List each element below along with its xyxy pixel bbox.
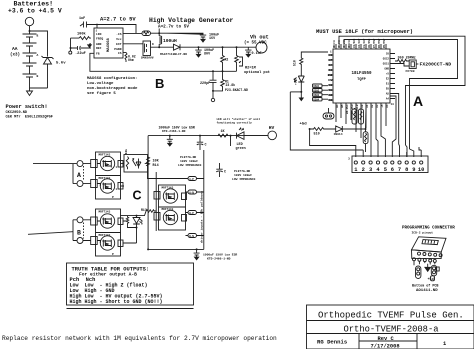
label 1000uF: [159, 126, 195, 134]
svg-text:RD2/A: RD2/A: [337, 40, 341, 48]
bracket A: [73, 164, 77, 184]
svg-text:1uF: 1uF: [79, 17, 85, 21]
wire -CS: [123, 32, 142, 34]
wire HV rail: [180, 46, 256, 48]
svg-text:C6: C6: [329, 54, 333, 57]
svg-text:B: B: [77, 230, 81, 237]
resistor R2: [221, 47, 229, 71]
label Batteries: [8, 1, 62, 15]
svg-text:7/17/2008: 7/17/2008: [371, 344, 400, 349]
svg-text:C0: C0: [386, 53, 390, 56]
svg-text:FX?00: FX?00: [406, 70, 415, 73]
svg-text:A: A: [413, 93, 423, 109]
svg-text:10: 10: [418, 167, 424, 173]
resistor pack dual: [352, 108, 364, 124]
svg-text:1000uF 150V Low ESR: 1000uF 150V Low ESR: [203, 254, 237, 257]
svg-text:MRF7343: MRF7343: [99, 153, 111, 156]
svg-text:Low-voltage: Low-voltage: [87, 81, 114, 86]
svg-text:Replace resistor network with: Replace resistor network with 1M equival…: [2, 335, 277, 342]
svg-text:A=2.7v to 5V: A=2.7v to 5V: [158, 25, 189, 30]
svg-text:R2=1M: R2=1M: [245, 67, 256, 71]
pin leads: [414, 261, 435, 266]
node: [158, 46, 160, 48]
label C: [133, 189, 142, 203]
middle driver pair: [154, 185, 187, 230]
terminal B1: [77, 217, 83, 223]
ground GND pin: [88, 44, 92, 48]
svg-text:EXT: EXT: [116, 43, 122, 46]
svg-text:B-N: B-N: [189, 235, 194, 238]
svg-text:10K: 10K: [153, 160, 160, 164]
svg-text:C0/OSC: C0/OSC: [367, 38, 371, 48]
svg-text:B2: B2: [329, 94, 333, 97]
svg-text:see figure 5: see figure 5: [87, 91, 116, 96]
svg-text:6: 6: [391, 167, 394, 173]
svg-text:GND: GND: [96, 43, 102, 46]
led B: [133, 216, 142, 231]
svg-text:A: A: [37, 54, 39, 57]
node: [136, 227, 138, 229]
svg-text:High High - Short to GND (NO!!: High High - Short to GND (NO!!): [70, 299, 163, 305]
node: [147, 248, 149, 250]
label +5d vertical: [293, 79, 297, 85]
svg-text:1: 1: [354, 167, 357, 173]
label stutter: [217, 117, 261, 124]
terminal A1: [77, 161, 83, 167]
label MUST USE 18LF: [316, 29, 413, 35]
svg-text:R13: R13: [141, 208, 147, 212]
terminal Vh out: [244, 35, 269, 54]
svg-text:D: D: [152, 43, 154, 46]
svg-text:16V: 16V: [209, 37, 216, 41]
svg-text:Bottom of PCB: Bottom of PCB: [412, 284, 438, 289]
svg-text:(= 55 VDC: (= 55 VDC: [244, 41, 267, 46]
terminal: [69, 51, 72, 54]
svg-text:W: W: [331, 79, 333, 82]
label MAX668 config: [87, 76, 138, 96]
diode 1N914: [325, 126, 343, 136]
svg-text:C1/CCP: C1/CCP: [362, 38, 366, 48]
svg-text:Ohm: Ohm: [128, 58, 134, 62]
inductor L1 100uH: [159, 33, 177, 47]
wire crystal drop: [392, 119, 396, 157]
svg-text:PROGRAMMING CONNECTOR: PROGRAMMING CONNECTOR: [402, 227, 455, 231]
label B: [77, 230, 81, 237]
label FX200CCT-ND: [420, 62, 452, 68]
svg-text:A1: A1: [366, 104, 369, 108]
driver bus vertical: [203, 150, 205, 249]
svg-text:PGND: PGND: [114, 48, 121, 51]
capacitor C bypass 1uF: [80, 22, 89, 28]
svg-text:C7: C7: [329, 59, 333, 62]
wires into pins 1,2: [310, 129, 356, 157]
svg-text:100uH: 100uH: [163, 38, 177, 44]
svg-text:3: 3: [369, 167, 372, 173]
svg-text:+5d: +5d: [300, 122, 308, 127]
node: [158, 32, 160, 34]
wire divider: [213, 70, 237, 72]
svg-text:DSW3: DSW3: [314, 94, 320, 97]
svg-text:80V: 80V: [204, 53, 211, 57]
svg-text:3: 3: [348, 158, 350, 161]
mcu U1 18LF4550: [328, 38, 395, 114]
node battery top: [29, 30, 31, 32]
label 5.6v: [56, 62, 66, 66]
svg-text:Batteries!: Batteries!: [14, 1, 54, 8]
svg-text:Ortho-TVEMF-2008-a: Ortho-TVEMF-2008-a: [344, 325, 439, 335]
wire +5d rail vertical: [290, 92, 363, 150]
terminal gnd: [212, 91, 214, 98]
svg-text:A4: A4: [386, 104, 389, 108]
svg-text:PL877G-ND: PL877G-ND: [180, 156, 196, 159]
svg-text:23.8k: 23.8k: [226, 83, 236, 87]
svg-text:B5: B5: [341, 104, 344, 108]
wire: [290, 91, 301, 93]
label High Voltage Generator: [149, 17, 234, 30]
label Power switch: [6, 104, 53, 120]
svg-text:MAX668: MAX668: [107, 37, 111, 51]
resistor sense (oval): [142, 31, 151, 36]
svg-text:A2: A2: [371, 104, 374, 108]
diode D2: [160, 44, 187, 56]
label AA (x3): [10, 46, 20, 58]
wire chip top stub: [96, 25, 98, 29]
capacitor 100uF 16V: [159, 33, 219, 42]
svg-text:RD0/A: RD0/A: [347, 40, 351, 48]
pins left: [328, 55, 333, 100]
svg-text:ICD-2 pinout: ICD-2 pinout: [412, 231, 434, 235]
wire bus inner: [344, 40, 458, 150]
bottom note: [2, 335, 277, 342]
HV rail C section: [148, 135, 268, 137]
svg-text:A3: A3: [376, 104, 379, 108]
svg-text:D6/PSP: D6/PSP: [377, 38, 381, 48]
node: [198, 46, 200, 48]
node: [196, 248, 198, 250]
svg-text:+5: +5: [386, 73, 390, 76]
svg-text:9: 9: [412, 167, 415, 173]
capacitor 0.1uF: [245, 47, 262, 57]
svg-text:1: 1: [116, 166, 118, 169]
label B: [155, 76, 164, 91]
svg-text:FREQ: FREQ: [96, 38, 103, 41]
resistor R14: [147, 157, 160, 168]
transistor Q1: [141, 41, 155, 60]
label 1000uF bottom: [203, 254, 237, 261]
node: [300, 91, 302, 93]
svg-text:13: 13: [391, 103, 395, 106]
svg-text:-CS: -CS: [116, 33, 122, 36]
pins bottom: [336, 103, 386, 108]
wire from A supply: [158, 29, 160, 34]
wire: [70, 38, 72, 48]
svg-text:B3: B3: [329, 99, 333, 102]
power switch node circle: [25, 17, 33, 25]
svg-text:DMN3006: DMN3006: [141, 57, 154, 60]
resistor R sense 0.02 Ohm: [123, 52, 136, 62]
wire loop ends: [406, 145, 422, 157]
svg-text:A4: A4: [386, 98, 390, 101]
svg-text:DSW1: DSW1: [314, 85, 320, 88]
svg-text:A0: A0: [361, 104, 364, 108]
svg-text:5: 5: [384, 167, 387, 173]
terminal B2: [77, 238, 83, 244]
svg-text:D5/PSP: D5/PSP: [382, 38, 386, 48]
wire output A: [33, 163, 73, 165]
terminal A2: [77, 181, 83, 187]
svg-text:B: B: [37, 35, 39, 38]
node: [212, 90, 214, 92]
svg-text:1: 1: [116, 188, 118, 191]
wire bus outer: [339, 36, 465, 145]
svg-text:MRF7343: MRF7343: [99, 210, 111, 213]
label programming connector: [402, 227, 455, 235]
resistor 510: [310, 128, 325, 137]
svg-text:green: green: [236, 146, 246, 151]
node: [365, 128, 367, 130]
pins right: [390, 54, 395, 99]
svg-text:510: 510: [293, 60, 297, 66]
svg-text:optional pot: optional pot: [244, 70, 270, 75]
svg-text:A-N: A-N: [189, 191, 194, 194]
resistor R13: [141, 208, 156, 213]
label bottom of pcb: [412, 284, 438, 293]
svg-text:LOW IMPEDANCE: LOW IMPEDANCE: [178, 164, 202, 167]
resistor 510 vertical: [293, 52, 329, 76]
svg-text:TQFP: TQFP: [357, 78, 366, 82]
svg-text:HV: HV: [269, 125, 275, 131]
zener D1 5.6v: [42, 56, 54, 88]
resistor R1: [213, 71, 248, 92]
resistor parallel: [126, 216, 136, 228]
resistor network tags: [313, 84, 329, 101]
svg-text:C: C: [205, 144, 207, 148]
resistor vertical box: [363, 129, 368, 152]
svg-text:220pF: 220pF: [200, 82, 210, 86]
svg-text:C2/CCP: C2/CCP: [357, 38, 361, 48]
svg-text:A5: A5: [386, 93, 390, 96]
label PL877G right: [232, 170, 256, 181]
wire gate B: [121, 211, 147, 215]
ground: [27, 88, 33, 96]
svg-text:A: A: [77, 172, 81, 179]
pin labels: [328, 38, 395, 114]
node: [70, 47, 72, 49]
jumper oval: [323, 108, 334, 119]
svg-text:D5: D5: [329, 69, 333, 72]
svg-text:2: 2: [362, 167, 365, 173]
resistor prog 2: [431, 265, 439, 276]
label PL877G left: [178, 156, 202, 167]
svg-text:PL877G-ND: PL877G-ND: [234, 170, 250, 173]
connector pins row1: [418, 252, 443, 257]
svg-text:+5d: +5d: [293, 79, 297, 85]
svg-text:FX200CCT-ND: FX200CCT-ND: [420, 62, 452, 68]
node: [136, 215, 138, 217]
svg-text:Vh out: Vh out: [250, 35, 269, 41]
svg-text:B1: B1: [329, 89, 333, 92]
svg-text:(x3): (x3): [10, 53, 20, 58]
driver pair A (P-ch): [83, 152, 123, 199]
svg-text:P: P: [112, 253, 114, 256]
capacitor C: [197, 136, 207, 150]
svg-text:E1: E1: [386, 83, 390, 86]
svg-text:LOW IMPEDANCE: LOW IMPEDANCE: [232, 178, 256, 181]
svg-text:KTD-2466-1-ND: KTD-2466-1-ND: [162, 130, 186, 133]
wires driver connections: [121, 164, 149, 186]
label A=2.7 to 5V: [79, 17, 136, 23]
svg-text:B0: B0: [329, 84, 333, 87]
svg-text:OSC1: OSC1: [383, 63, 390, 66]
svg-text:Orthopedic TVEMF Pulse Gen.: Orthopedic TVEMF Pulse Gen.: [318, 311, 464, 321]
svg-text:1K: 1K: [221, 130, 226, 134]
svg-text:P: P: [112, 196, 114, 199]
wire: [342, 128, 365, 130]
svg-text:A=2.7 to 5V: A=2.7 to 5V: [100, 17, 136, 23]
capacitor bulk: [167, 136, 173, 146]
svg-text:Power switch!: Power switch!: [6, 104, 48, 110]
wire: [365, 108, 368, 129]
node: [169, 135, 171, 137]
svg-text:B-P: B-P: [189, 212, 194, 215]
svg-text:510: 510: [314, 132, 320, 136]
svg-text:MUST USE 18LF (for micropower): MUST USE 18LF (for micropower): [316, 29, 413, 35]
node: [309, 128, 311, 130]
svg-text:MRF7343: MRF7343: [162, 186, 174, 189]
capacitor C right: [216, 163, 226, 177]
label A: [413, 93, 423, 109]
svg-text:+5: +5: [381, 104, 384, 108]
driver pair B: [83, 209, 123, 256]
svg-text:C3/SCK: C3/SCK: [352, 38, 356, 48]
label +5d: [300, 122, 308, 127]
capacitor .22uF: [71, 46, 92, 56]
svg-text:1: 1: [443, 341, 446, 347]
resistor 100k: [71, 32, 92, 40]
svg-text:B4: B4: [336, 104, 339, 108]
svg-text:C: C: [224, 171, 226, 175]
node: [96, 24, 98, 26]
led D3: [294, 76, 304, 92]
svg-text:functioning correctly: functioning correctly: [217, 120, 253, 124]
resistor 1K: [218, 130, 228, 137]
ground: [299, 92, 303, 101]
svg-text:B: B: [37, 75, 39, 78]
truth table box: [67, 263, 194, 309]
wire: [30, 87, 48, 89]
battery B1 (AA x3): [23, 31, 39, 88]
svg-text:CS: CS: [118, 52, 122, 55]
svg-text:C: C: [133, 189, 142, 203]
svg-text:R2: R2: [225, 58, 229, 62]
svg-text:B: B: [155, 76, 164, 91]
dashed link: [83, 223, 85, 239]
wire: [29, 26, 31, 31]
svg-text:RD1/A: RD1/A: [342, 40, 346, 48]
svg-text:MRF7343: MRF7343: [99, 234, 111, 237]
svg-text:100k: 100k: [77, 32, 86, 37]
title block frame: [307, 305, 474, 349]
node R14 top: [147, 163, 149, 165]
potentiometer R2=1M: [235, 47, 270, 75]
svg-text:18LF4550: 18LF4550: [351, 72, 372, 76]
pins top: [336, 44, 386, 49]
svg-text:CKC2050-ND: CKC2050-ND: [6, 111, 28, 115]
wire FB loop: [90, 53, 213, 71]
svg-text:GND: GND: [328, 74, 333, 77]
node: [236, 46, 238, 48]
svg-text:Rev C: Rev C: [378, 336, 395, 342]
svg-text:DSW2: DSW2: [314, 89, 320, 92]
svg-text:1N914: 1N914: [334, 133, 343, 136]
opto LED box A: [124, 149, 148, 172]
svg-text:Vcc: Vcc: [116, 38, 122, 41]
svg-text:MRF7343: MRF7343: [162, 208, 174, 211]
resistor prog 1: [416, 266, 421, 279]
svg-text:R14: R14: [153, 164, 159, 168]
crystal X1 20MHz: [395, 57, 418, 74]
connector pins row2: [413, 258, 437, 263]
wire switch node rail: [155, 46, 174, 48]
node: [222, 46, 224, 48]
terminal HV: [268, 125, 277, 140]
svg-text:non-bootstrapped mode: non-bootstrapped mode: [87, 86, 138, 91]
label +5d prog: [428, 277, 434, 282]
svg-text:REF: REF: [96, 47, 102, 50]
wire: [155, 172, 157, 231]
svg-text:100V 100uF: 100V 100uF: [234, 174, 252, 177]
svg-text:MRF7343: MRF7343: [99, 177, 111, 180]
wire EXT: [123, 43, 143, 45]
op-amp U2 MAX668: [94, 28, 123, 58]
capacitor 220pF: [200, 71, 217, 91]
node: [230, 135, 232, 137]
capacitor 100uF 80V: [195, 47, 214, 57]
small part: [431, 276, 435, 281]
svg-text:RG Dennis: RG Dennis: [317, 339, 348, 346]
svg-text:C&K Mfr ES0L12US2QPGF: C&K Mfr ES0L12US2QPGF: [6, 115, 53, 120]
label driver inputs: [199, 191, 203, 243]
wire output B sloped: [28, 232, 73, 235]
svg-text:1000uF 150V Low ESR: 1000uF 150V Low ESR: [159, 126, 195, 130]
wire top rail: [89, 25, 136, 34]
label A: [77, 172, 81, 179]
connector 3d body: [412, 237, 447, 259]
wire right pin drop: [395, 94, 400, 158]
wire: [244, 135, 268, 137]
svg-text:LDO: LDO: [96, 33, 102, 36]
svg-text:MA2Z7110BLCT-ND: MA2Z7110BLCT-ND: [160, 53, 187, 56]
svg-text:7: 7: [398, 167, 401, 173]
svg-text:AO1411-ND: AO1411-ND: [416, 289, 438, 293]
svg-text:OSC2: OSC2: [383, 58, 390, 61]
svg-text:GND: GND: [384, 68, 389, 71]
node: [212, 70, 214, 72]
svg-text:RD3/A: RD3/A: [332, 40, 336, 48]
wire: [151, 32, 160, 34]
node: [199, 135, 201, 137]
dashed link: [83, 166, 85, 181]
svg-text:KTD-2466-1-ND: KTD-2466-1-ND: [207, 258, 231, 261]
wire: [230, 136, 232, 146]
svg-text:MAX668 configuration:: MAX668 configuration:: [87, 76, 137, 81]
svg-text:E2: E2: [386, 78, 390, 81]
svg-text:D7/PSP: D7/PSP: [372, 38, 376, 48]
wire: [30, 31, 48, 57]
svg-text:High Voltage Generator: High Voltage Generator: [149, 17, 234, 24]
capacitor bulk bottom: [194, 249, 200, 259]
connector J1: [348, 156, 428, 173]
